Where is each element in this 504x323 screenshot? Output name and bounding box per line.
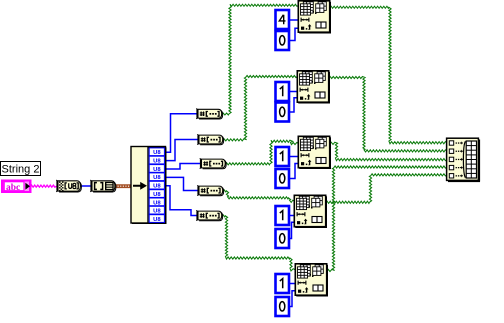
wire: bool array 2 to Array Subset B: [223, 76, 298, 141]
constant: 1 (index for subset D): [276, 206, 291, 226]
wire: cluster from Array To Cluster to Unbundle: [114, 184, 133, 188]
node: String To Byte Array [U8]: [56, 180, 81, 192]
constant: 0 (length for subset C): [276, 169, 291, 189]
constant: 4 (index for subset A): [276, 10, 291, 30]
wire: constant 0 to Array Subset A length: [289, 28, 299, 40]
node: Array Subset A: [298, 1, 331, 34]
constant: 0 (length for subset A): [276, 31, 291, 51]
svg-text:U8: U8: [153, 217, 161, 223]
wire: U8 element 3 to NumToBoolArray 3: [165, 164, 200, 170]
wire: U8 element 2 to NumToBoolArray 2: [165, 140, 198, 161]
label: String 2: [1, 162, 41, 176]
node: Array To Cluster []=: [90, 180, 116, 192]
node: Build Array (5 inputs): [447, 138, 480, 182]
wire: subset E to Build Array in4: [327, 166, 448, 272]
wire: constant 0 to Array Subset C length: [289, 164, 299, 179]
node: Number To Boolean Array 4: [197, 185, 224, 195]
svg-text:U8: U8: [153, 150, 161, 156]
svg-text:U8: U8: [153, 209, 161, 215]
node: Number To Boolean Array 2: [197, 134, 224, 144]
constant: 0 (length for subset B): [276, 103, 291, 123]
node: Array Subset C: [298, 136, 331, 169]
wire: U8 element 4 to NumToBoolArray 4: [165, 177, 198, 190]
wire: constant 0 to Array Subset E length: [289, 291, 296, 307]
wire: constant 0 to Array Subset D length: [289, 222, 295, 238]
svg-text:abc: abc: [6, 183, 20, 193]
unbundle element cells U8 x9: [148, 148, 166, 224]
wire: subset C to Build Array in3: [330, 142, 448, 161]
node: Array Subset B: [297, 71, 330, 104]
svg-text:U8: U8: [153, 192, 161, 198]
node: Array Subset D: [294, 195, 327, 228]
node: Number To Boolean Array 3: [200, 158, 227, 168]
node: Number To Boolean Array 1: [196, 109, 223, 119]
wire: subset A to Build Array in1: [330, 6, 448, 144]
svg-text:U8: U8: [153, 200, 161, 206]
wire: constant 1 to Array Subset D index: [289, 215, 295, 217]
wire: constant 1 to Array Subset C index: [289, 156, 299, 158]
wire: U8 element 5 to NumToBoolArray 5: [165, 186, 197, 216]
constant: 1 (index for subset C): [276, 147, 291, 167]
wire: U8 element 1 to NumToBoolArray 1: [165, 114, 197, 153]
node: Array Subset E: [295, 264, 328, 297]
wire: subset B to Build Array in2: [329, 77, 448, 153]
unbundle input arrow: [133, 182, 147, 190]
wire: bool array 4 to Array Subset D: [223, 190, 295, 203]
control terminal: String 2 (abc): [1, 180, 32, 194]
wire: constant 1 to Array Subset B index: [289, 91, 298, 93]
wire: subset D to Build Array in5: [326, 174, 448, 204]
wire: bool array 5 to Array Subset E: [222, 215, 296, 271]
constant: 0 (length for subset E): [276, 297, 291, 317]
wire: bool array 3 to Array Subset C: [225, 140, 299, 165]
constant: 1 (index for subset E): [276, 274, 291, 294]
node: Number To Boolean Array 5: [196, 210, 223, 220]
wire: string from String 2 control to String To Byte Array: [30, 185, 57, 187]
wire: bool array 1 to Array Subset A: [222, 4, 299, 115]
svg-text:U8: U8: [153, 167, 161, 173]
wire: constant 1 to Array Subset E index: [289, 283, 296, 285]
constant: 1 (index for subset B): [276, 82, 291, 102]
constant: 0 (length for subset D): [276, 229, 291, 249]
wire: constant 4 to Array Subset A index: [289, 19, 299, 21]
wire: constant 0 to Array Subset B length: [289, 98, 298, 112]
svg-text:String 2: String 2: [2, 164, 40, 176]
svg-text:U8: U8: [153, 159, 161, 165]
node: Unbundle cluster into 9 U8 elements: [131, 147, 167, 225]
svg-text:U8: U8: [153, 175, 161, 181]
wire: byte array from [U8] to Array To Cluster: [79, 185, 91, 187]
svg-text:U8: U8: [153, 184, 161, 190]
